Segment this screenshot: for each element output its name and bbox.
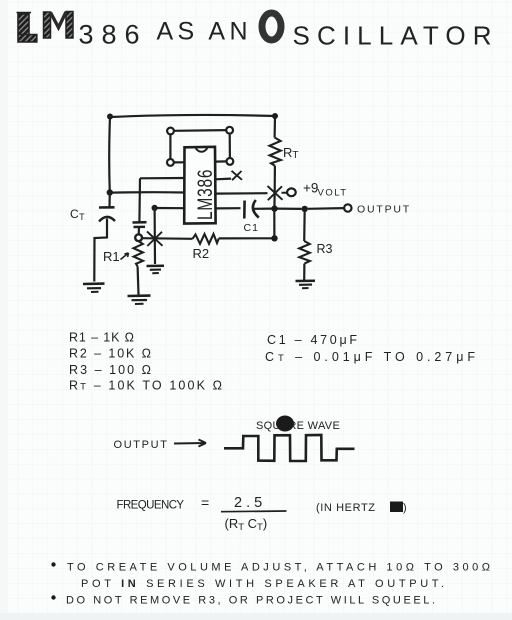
node: bottom-right dot — [271, 235, 277, 241]
square wave trace — [224, 435, 355, 461]
svg-text:VOLT: VOLT — [318, 188, 348, 199]
svg-text:=: = — [201, 495, 209, 511]
wire: rail X to C1 node — [273, 191, 276, 209]
node: R3 top dot — [302, 206, 308, 212]
gain loop (pins 1-8) — [167, 127, 233, 166]
pin7 stub with X (unused) — [216, 178, 231, 181]
wire: pin2 horizontal to IC — [110, 191, 184, 194]
wire: top horizontal — [110, 115, 275, 117]
svg-text:AS AN: AS AN — [157, 18, 251, 46]
svg-text:SCILLATOR: SCILLATOR — [293, 21, 498, 51]
svg-text:FREQUENCY: FREQUENCY — [117, 500, 185, 512]
svg-text:SQUARE WAVE: SQUARE WAVE — [256, 420, 341, 432]
scribble blob over label — [276, 416, 294, 432]
IC U1 LM386 body — [184, 147, 216, 224]
node: top-right junction dot — [272, 113, 278, 119]
output terminal — [344, 204, 351, 211]
wire: R1 to ground — [137, 267, 140, 295]
svg-text:TO CREATE VOLUME ADJUST, ATTAC: TO CREATE VOLUME ADJUST, ATTACH 10Ω TO 3… — [67, 562, 491, 574]
node: top-left junction dot — [107, 114, 113, 120]
wire: dot down through X to ground — [154, 208, 157, 264]
svg-text:OUTPUT: OUTPUT — [357, 204, 411, 216]
svg-text:R3: R3 — [317, 242, 333, 256]
ground under R3 — [296, 281, 316, 289]
ground under X wire — [147, 266, 165, 274]
wire: dot to IC pin3 — [155, 207, 184, 209]
+9V terminal — [282, 192, 288, 194]
node: C1-right dot — [271, 205, 277, 211]
wire: bottom horizontal to R2 — [142, 237, 193, 240]
svg-text:R1 – 1K Ω: R1 – 1K Ω — [69, 331, 135, 345]
arrow to waveform — [174, 440, 206, 447]
svg-text:2.5: 2.5 — [234, 495, 266, 511]
wire: output line — [278, 208, 302, 210]
capacitor C1 — [216, 207, 241, 209]
svg-text:R1: R1 — [103, 249, 120, 264]
node: left rail junction dot — [107, 189, 113, 195]
note bullet 2 — [51, 595, 55, 599]
node: open circle junction above R1 — [135, 234, 142, 241]
title letter L — [17, 13, 37, 43]
svg-text:C1 – 470μF: C1 – 470μF — [267, 333, 358, 347]
capacitor CT — [94, 193, 115, 282]
X crossing mark — [147, 232, 163, 247]
wire: left vertical rail — [108, 117, 111, 193]
svg-text:R2: R2 — [193, 246, 210, 261]
svg-text:386: 386 — [79, 20, 145, 50]
title letter M — [44, 12, 74, 39]
svg-text:+9: +9 — [303, 181, 318, 196]
node: pin3 dot — [152, 205, 158, 211]
resistor RT — [274, 116, 277, 138]
svg-text:OUTPUT: OUTPUT — [114, 439, 169, 451]
svg-text:R2 – 10K Ω: R2 – 10K Ω — [69, 347, 152, 361]
svg-text:C1: C1 — [244, 222, 259, 234]
wire: pin6 +9V — [216, 192, 268, 195]
resistor R1 — [134, 241, 144, 267]
resistor R3 — [303, 209, 306, 241]
svg-text:): ) — [403, 502, 407, 514]
wire: right rail C1 node to bottom node — [273, 209, 275, 238]
X junction at +9V rail — [268, 186, 283, 200]
svg-text:CT – 0.01μF TO 0.27μF: CT – 0.01μF TO 0.27μF — [265, 350, 476, 364]
svg-text:R3 – 100 Ω: R3 – 100 Ω — [69, 363, 152, 377]
title letter O — [262, 13, 281, 40]
ground under R1 — [128, 296, 151, 304]
wire: R2 to right rail — [219, 237, 275, 239]
svg-text:LM386: LM386 — [193, 169, 217, 220]
resistor R2 — [193, 234, 219, 244]
svg-text:RT – 10K TO 100K Ω: RT – 10K TO 100K Ω — [69, 379, 223, 393]
note bullet 1 — [51, 562, 55, 566]
capacitor (bypass) on R1 branch — [133, 222, 147, 234]
wire: pin3 branch (x=140) — [139, 178, 184, 222]
svg-text:(IN HERTZ: (IN HERTZ — [316, 502, 376, 514]
ground under CT — [83, 284, 105, 292]
